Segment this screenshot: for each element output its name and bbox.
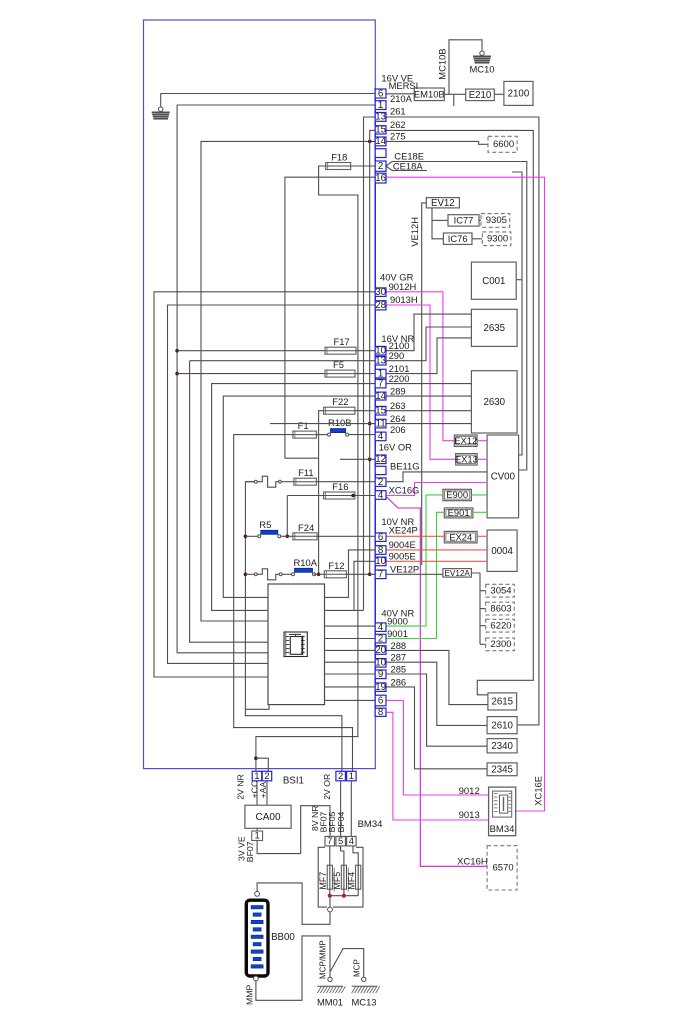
svg-text:F17: F17 [334,336,350,347]
svg-text:F16: F16 [332,481,348,492]
svg-text:VE12P: VE12P [390,563,419,574]
svg-text:2635: 2635 [483,323,505,334]
svg-text:IC77: IC77 [454,215,474,226]
svg-text:CA00: CA00 [255,812,280,823]
svg-text:210A: 210A [390,93,413,104]
svg-text:VE12H: VE12H [409,217,420,247]
svg-text:F24: F24 [298,522,314,533]
svg-text:EV12: EV12 [431,198,455,209]
svg-text:3054: 3054 [490,585,511,596]
svg-text:2630: 2630 [483,397,505,408]
svg-text:MC10: MC10 [469,64,494,75]
svg-text:6220: 6220 [490,620,511,631]
svg-text:MF5: MF5 [332,872,342,890]
svg-text:10: 10 [375,556,386,567]
svg-text:2: 2 [378,477,383,488]
svg-text:BM34: BM34 [490,824,515,835]
svg-text:2: 2 [378,633,383,644]
svg-text:6: 6 [378,695,383,706]
svg-text:XC16G: XC16G [389,485,420,496]
svg-text:2200: 2200 [389,373,410,384]
svg-text:BF04: BF04 [336,811,346,832]
svg-text:9013: 9013 [459,810,480,821]
svg-text:MC10B: MC10B [437,48,448,79]
svg-text:12: 12 [375,454,386,465]
svg-text:EX13: EX13 [455,454,478,465]
svg-text:2610: 2610 [491,720,513,731]
svg-text:CE18A: CE18A [393,160,423,171]
svg-text:6600: 6600 [493,139,514,150]
svg-text:10: 10 [375,658,386,669]
svg-text:14: 14 [375,136,386,147]
svg-text:13: 13 [375,112,386,123]
svg-text:F1: F1 [298,420,309,431]
svg-text:EX12: EX12 [454,435,477,446]
svg-text:9305: 9305 [486,215,507,226]
svg-text:MF4: MF4 [346,872,356,890]
svg-text:263: 263 [390,400,406,411]
svg-text:261: 261 [390,106,406,117]
svg-text:9012H: 9012H [389,281,417,292]
svg-text:MERSI: MERSI [389,80,419,91]
svg-text:28: 28 [375,300,386,311]
svg-text:F12: F12 [328,560,344,571]
svg-text:6: 6 [378,88,383,99]
svg-text:F5: F5 [333,359,344,370]
svg-text:11: 11 [376,418,386,429]
svg-text:9004E: 9004E [389,539,416,550]
svg-text:288: 288 [391,640,407,651]
svg-text:2: 2 [264,771,269,782]
svg-text:MC13: MC13 [351,997,376,1008]
svg-text:16: 16 [375,173,386,184]
svg-text:EX24: EX24 [449,531,472,542]
svg-text:7: 7 [327,835,332,846]
svg-text:289: 289 [390,386,406,397]
svg-text:290: 290 [389,350,405,361]
svg-text:9012: 9012 [459,786,480,797]
svg-text:286: 286 [391,676,407,687]
svg-text:XC16E: XC16E [533,776,544,806]
svg-text:15: 15 [375,125,386,136]
svg-text:XE24P: XE24P [389,525,418,536]
svg-text:E210: E210 [469,90,492,101]
svg-text:2: 2 [378,161,383,172]
svg-text:4: 4 [378,622,384,633]
svg-text:MF7: MF7 [318,872,328,890]
svg-text:BB00: BB00 [271,932,295,943]
svg-text:2V OR: 2V OR [322,774,332,800]
svg-text:CV00: CV00 [491,472,516,483]
svg-text:8603: 8603 [490,603,511,614]
svg-text:264: 264 [390,413,406,424]
svg-text:MCP/MMP: MCP/MMP [319,940,328,979]
svg-text:15: 15 [375,406,386,417]
svg-text:262: 262 [390,119,406,130]
svg-text:EV12A: EV12A [444,569,470,578]
svg-text:7: 7 [378,569,383,580]
svg-text:C001: C001 [482,276,505,287]
svg-text:EM10B: EM10B [414,89,445,100]
svg-text:8: 8 [378,707,383,718]
svg-text:R10A: R10A [294,557,318,568]
svg-text:4: 4 [349,835,354,846]
svg-text:F22: F22 [332,396,348,407]
svg-text:BSI1: BSI1 [283,776,304,787]
svg-text:14: 14 [375,391,386,402]
svg-text:1: 1 [254,830,259,841]
svg-text:2300: 2300 [490,639,511,650]
svg-text:206: 206 [390,424,406,435]
svg-text:7: 7 [378,378,383,389]
svg-text:4: 4 [378,490,384,501]
svg-text:R10B: R10B [328,417,351,428]
svg-text:2: 2 [338,771,343,782]
svg-text:20: 20 [375,645,386,656]
svg-text:E900: E900 [446,489,468,500]
svg-text:16V OR: 16V OR [379,442,413,453]
svg-text:9: 9 [378,669,383,680]
svg-text:5: 5 [338,835,343,846]
svg-text:9005E: 9005E [389,551,416,562]
svg-text:287: 287 [391,652,407,663]
svg-text:BM34: BM34 [358,819,383,830]
svg-text:30: 30 [375,287,386,298]
svg-text:2615: 2615 [491,697,513,708]
svg-text:IC76: IC76 [448,233,468,244]
svg-text:275: 275 [390,130,406,141]
svg-text:2340: 2340 [491,741,513,752]
svg-text:1: 1 [378,100,383,111]
svg-text:6: 6 [378,532,383,543]
svg-text:19: 19 [375,682,386,693]
svg-text:6570: 6570 [493,863,514,874]
svg-text:F11: F11 [298,467,313,478]
svg-text:9000: 9000 [387,616,408,627]
svg-text:4: 4 [378,431,384,442]
svg-text:9300: 9300 [487,233,508,244]
svg-text:MMP: MMP [245,985,255,1005]
svg-text:MM01: MM01 [317,997,343,1008]
svg-text:MCP: MCP [353,959,362,977]
svg-text:9001: 9001 [387,628,408,639]
svg-text:2V NR: 2V NR [236,774,246,800]
svg-text:F18: F18 [331,152,347,163]
svg-text:1: 1 [254,771,259,782]
svg-text:E901: E901 [448,507,470,518]
svg-text:285: 285 [391,663,407,674]
svg-text:2100: 2100 [508,89,530,100]
svg-text:13: 13 [375,356,386,367]
svg-text:BE11G: BE11G [390,460,420,471]
svg-text:9013H: 9013H [390,294,418,305]
svg-text:0004: 0004 [491,546,513,557]
svg-text:R5: R5 [259,519,271,530]
svg-text:XC16H: XC16H [457,857,488,868]
svg-text:BF07: BF07 [245,841,255,862]
svg-text:2345: 2345 [491,765,513,776]
svg-text:1: 1 [349,771,354,782]
svg-text:8: 8 [378,545,383,556]
